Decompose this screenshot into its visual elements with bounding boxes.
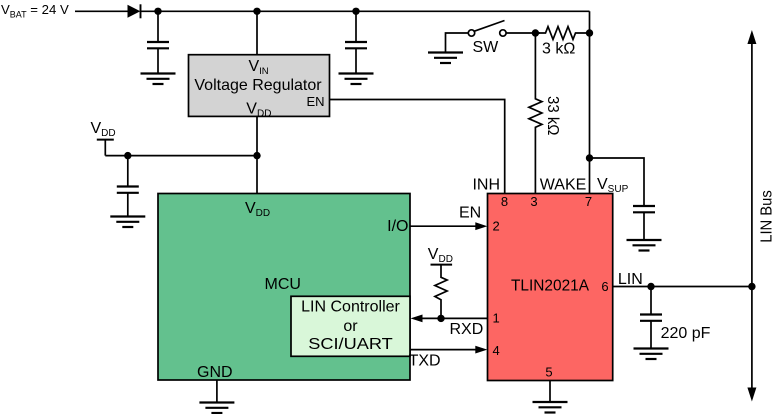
junction dot VSUP: [586, 154, 593, 161]
diode D1: [128, 4, 141, 18]
junction dot switch/3k/33k: [532, 29, 539, 36]
wire TXD with arrow: [409, 346, 488, 370]
junction dot at C3: [124, 152, 131, 159]
wire switch to 3k junction: [506, 32, 540, 34]
node VBAT label: [1, 2, 69, 19]
junction dot at C2: [352, 8, 359, 15]
wire VBAT to diode anode: [75, 10, 128, 12]
svg-text:TLIN2021A: TLIN2021A: [511, 278, 589, 295]
svg-text:VBAT = 24 V: VBAT = 24 V: [1, 2, 69, 19]
node VDD pullup symbol: [428, 246, 453, 273]
svg-text:or: or: [343, 318, 358, 335]
capacitor C5 220pF: [640, 287, 711, 349]
LIN controller inner box: [291, 296, 410, 356]
junction dot at VIN: [253, 8, 260, 15]
wire top rail diode to corner: [141, 10, 590, 12]
wire right drop top rail to VSUP junction: [589, 11, 591, 194]
ground below TLIN: [533, 402, 568, 413]
svg-text:2: 2: [493, 219, 500, 234]
svg-text:5: 5: [545, 365, 552, 380]
svg-text:8: 8: [501, 194, 508, 209]
wire VIN drop: [256, 11, 258, 54]
svg-text:6: 6: [601, 279, 608, 294]
junction dot VDD rail: [253, 152, 260, 159]
svg-text:3: 3: [530, 194, 537, 209]
capacitor C3: [117, 156, 139, 216]
svg-text:Voltage Regulator: Voltage Regulator: [194, 77, 322, 94]
LIN Bus line with arrows: [747, 30, 775, 402]
svg-text:SCI/UART: SCI/UART: [308, 336, 393, 353]
svg-text:WAKE: WAKE: [540, 177, 587, 194]
ground below C4: [627, 240, 662, 251]
junction dot 3k right: [586, 29, 593, 36]
resistor R1 3k: [535, 27, 589, 58]
MCU box: [158, 194, 410, 382]
ground below MCU: [199, 403, 234, 414]
svg-text:I/O: I/O: [387, 218, 408, 235]
ground below C5: [634, 349, 669, 360]
svg-text:LIN Controller: LIN Controller: [301, 299, 400, 316]
junction dot 220pF: [647, 283, 654, 290]
svg-text:4: 4: [493, 343, 500, 358]
TLIN2021A U1 box: [488, 194, 613, 381]
ground below C2: [339, 74, 374, 85]
svg-text:VDD: VDD: [428, 246, 453, 265]
resistor R3 pullup: [435, 273, 447, 318]
junction dot at C1: [154, 8, 161, 15]
svg-text:7: 7: [585, 194, 592, 209]
svg-text:EN: EN: [306, 94, 324, 109]
svg-text:33 kΩ: 33 kΩ: [544, 96, 561, 136]
wire EN I/O to pin2 with arrow: [410, 205, 487, 231]
svg-text:VSUP: VSUP: [597, 176, 629, 195]
svg-text:3 kΩ: 3 kΩ: [542, 41, 575, 58]
wire regulator EN to INH: [330, 100, 505, 195]
capacitor C2: [345, 11, 367, 73]
wire VSUP junction to C4: [590, 158, 645, 206]
switch SW: [468, 21, 506, 57]
svg-text:LIN Bus: LIN Bus: [758, 190, 775, 243]
svg-text:LIN: LIN: [618, 271, 643, 288]
junction dot LIN bus: [748, 283, 755, 290]
svg-text:EN: EN: [459, 205, 481, 222]
resistor R2 33k: [529, 33, 561, 195]
svg-text:TXD: TXD: [409, 353, 441, 370]
wire MCU GND pin: [216, 380, 218, 402]
voltage regulator U2: [189, 55, 330, 120]
capacitor C4: [633, 206, 655, 240]
node VDD supply symbol: [91, 120, 116, 156]
svg-text:SW: SW: [473, 39, 500, 56]
wire RXD with arrow: [411, 315, 488, 339]
wire VDD rail horizontal: [105, 155, 257, 157]
svg-text:RXD: RXD: [450, 321, 484, 338]
ground below C1: [141, 74, 176, 85]
wire TLIN pin5 to ground: [549, 381, 551, 402]
svg-text:INH: INH: [472, 177, 500, 194]
svg-text:MCU: MCU: [265, 276, 301, 293]
svg-text:VDD: VDD: [91, 120, 116, 139]
junction dot RXD: [437, 315, 444, 322]
wire regulator VDD output down to MCU: [256, 116, 258, 194]
svg-text:220 pF: 220 pF: [661, 325, 711, 342]
wire LIN to bus: [613, 271, 752, 288]
capacitor C1: [147, 11, 169, 73]
ground for switch SW: [428, 33, 469, 63]
svg-text:1: 1: [493, 311, 500, 326]
ground below C3: [110, 217, 145, 228]
svg-text:GND: GND: [197, 364, 233, 381]
